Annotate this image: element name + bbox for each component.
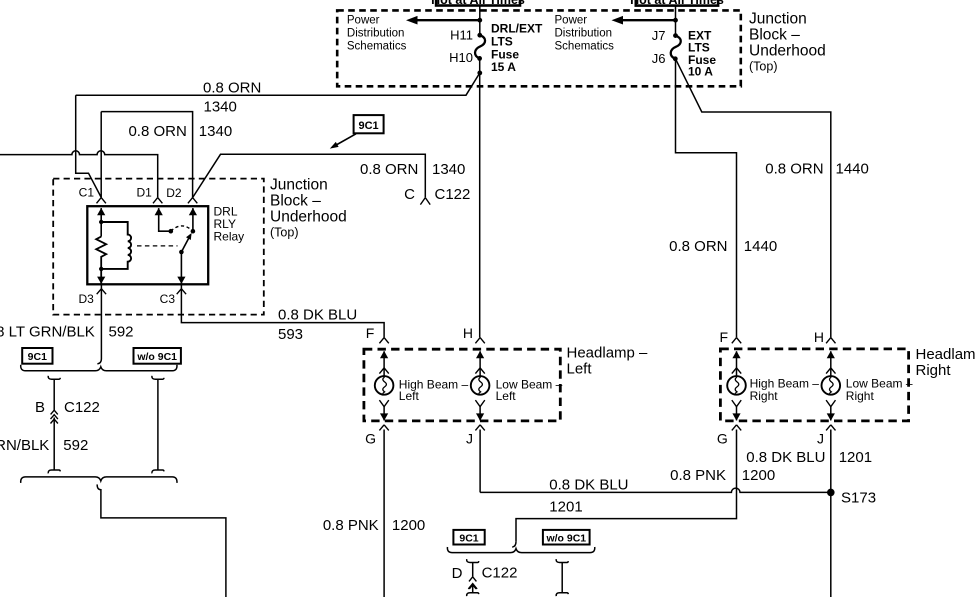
- svg-text:J6: J6: [652, 51, 666, 66]
- svg-text:0.8 DK BLU: 0.8 DK BLU: [746, 449, 825, 466]
- svg-text:Junction: Junction: [270, 177, 328, 194]
- svg-text:Headlamp –: Headlamp –: [567, 345, 649, 362]
- svg-text:Left: Left: [496, 389, 517, 403]
- svg-text:1340: 1340: [432, 161, 465, 178]
- svg-text:1440: 1440: [744, 238, 777, 255]
- svg-text:(Top): (Top): [749, 59, 777, 73]
- svg-text:Distribution: Distribution: [555, 28, 613, 40]
- svg-text:Fuse: Fuse: [491, 47, 519, 61]
- svg-text:592: 592: [109, 324, 134, 341]
- svg-text:G: G: [717, 431, 728, 447]
- svg-text:1200: 1200: [742, 467, 775, 484]
- svg-text:1440: 1440: [836, 161, 869, 178]
- svg-text:Underhood: Underhood: [270, 209, 347, 226]
- svg-text:Left: Left: [399, 389, 420, 403]
- svg-text:D: D: [452, 565, 463, 582]
- svg-text:D3: D3: [78, 292, 94, 306]
- svg-text:Distribution: Distribution: [347, 28, 405, 40]
- svg-text:Right: Right: [846, 389, 875, 403]
- svg-text:C122: C122: [482, 565, 518, 582]
- svg-text:1340: 1340: [204, 98, 237, 115]
- svg-text:0.8 ORN: 0.8 ORN: [203, 79, 261, 96]
- svg-text:Headlamp –: Headlamp –: [916, 346, 976, 363]
- svg-text:Schematics: Schematics: [347, 40, 407, 52]
- svg-text:0.8 DK BLU: 0.8 DK BLU: [278, 307, 357, 324]
- svg-text:DRL/EXT: DRL/EXT: [491, 22, 543, 36]
- svg-text:(Top): (Top): [270, 226, 298, 240]
- svg-text:15 A: 15 A: [491, 60, 516, 74]
- svg-text:H: H: [463, 325, 473, 341]
- svg-text:J: J: [817, 431, 824, 447]
- svg-text:Relay: Relay: [214, 230, 245, 244]
- svg-text:Junction: Junction: [749, 10, 807, 27]
- svg-text:G: G: [365, 431, 376, 447]
- svg-text:Left: Left: [567, 361, 593, 378]
- svg-text:Hot at All Times: Hot at All Times: [431, 0, 525, 7]
- svg-text:Right: Right: [750, 389, 779, 403]
- svg-text:1201: 1201: [549, 498, 582, 515]
- svg-text:C3: C3: [160, 292, 176, 306]
- svg-text:1340: 1340: [199, 123, 232, 140]
- svg-text:Block –: Block –: [270, 193, 321, 210]
- svg-text:593: 593: [278, 326, 303, 343]
- svg-text:D1: D1: [136, 186, 152, 200]
- svg-text:0.8 ORN: 0.8 ORN: [669, 238, 727, 255]
- svg-text:F: F: [719, 329, 728, 345]
- svg-text:H: H: [814, 329, 824, 345]
- svg-text:J7: J7: [652, 28, 666, 43]
- svg-text:0.8 LT GRN/BLK: 0.8 LT GRN/BLK: [0, 324, 95, 341]
- svg-text:9C1: 9C1: [459, 532, 478, 544]
- svg-text:Right: Right: [916, 362, 952, 379]
- svg-text:D2: D2: [166, 186, 182, 200]
- svg-text:10 A: 10 A: [688, 65, 713, 79]
- svg-text:H10: H10: [449, 50, 473, 65]
- svg-text:0.8 DK BLU: 0.8 DK BLU: [549, 476, 628, 493]
- svg-text:0.8 LT GRN/BLK: 0.8 LT GRN/BLK: [0, 437, 49, 454]
- svg-text:Power: Power: [347, 15, 380, 27]
- svg-text:S173: S173: [841, 489, 876, 506]
- svg-text:w/o 9C1: w/o 9C1: [545, 532, 586, 544]
- svg-text:0.8 PNK: 0.8 PNK: [670, 467, 726, 484]
- svg-text:H11: H11: [450, 28, 473, 43]
- svg-text:Block –: Block –: [749, 26, 800, 43]
- svg-text:Schematics: Schematics: [555, 40, 615, 52]
- svg-text:C122: C122: [435, 186, 471, 203]
- svg-text:0.8 PNK: 0.8 PNK: [323, 517, 379, 534]
- svg-text:9C1: 9C1: [359, 120, 379, 132]
- svg-text:w/o 9C1: w/o 9C1: [136, 351, 177, 363]
- svg-text:Power: Power: [555, 15, 588, 27]
- svg-text:1201: 1201: [839, 449, 872, 466]
- svg-text:C: C: [404, 186, 415, 203]
- svg-text:0.8 ORN: 0.8 ORN: [360, 161, 418, 178]
- svg-text:0.8 ORN: 0.8 ORN: [128, 123, 186, 140]
- svg-text:F: F: [366, 325, 375, 341]
- svg-text:C122: C122: [64, 399, 100, 416]
- svg-text:J: J: [466, 431, 473, 447]
- svg-text:9C1: 9C1: [28, 351, 47, 363]
- svg-text:1200: 1200: [392, 517, 425, 534]
- svg-text:592: 592: [63, 437, 88, 454]
- svg-text:Underhood: Underhood: [749, 42, 826, 59]
- svg-text:0.8 ORN: 0.8 ORN: [765, 161, 823, 178]
- svg-text:Hot at All Times: Hot at All Times: [630, 0, 724, 7]
- svg-text:C1: C1: [79, 186, 95, 200]
- svg-text:B: B: [35, 399, 45, 416]
